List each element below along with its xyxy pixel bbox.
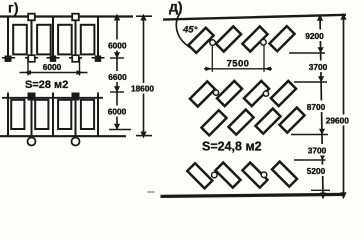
svg-text:6600: 6600 xyxy=(108,72,127,82)
svg-text:3700: 3700 xyxy=(309,62,328,72)
svg-text:29600: 29600 xyxy=(326,115,349,125)
svg-text:S=24,8 м2: S=24,8 м2 xyxy=(202,140,262,154)
svg-text:6000: 6000 xyxy=(108,107,127,117)
svg-text:6000: 6000 xyxy=(108,41,127,51)
svg-text:7500: 7500 xyxy=(227,58,250,69)
svg-text:8700: 8700 xyxy=(307,102,326,112)
svg-text:3700: 3700 xyxy=(308,146,327,156)
svg-text:6000: 6000 xyxy=(43,62,62,72)
svg-text:S=28 м2: S=28 м2 xyxy=(25,79,68,91)
svg-text:5200: 5200 xyxy=(307,166,326,176)
svg-text:18600: 18600 xyxy=(131,84,154,94)
svg-text:9200: 9200 xyxy=(305,31,324,41)
svg-text:г): г) xyxy=(8,0,19,16)
svg-text:45°: 45° xyxy=(182,24,198,35)
